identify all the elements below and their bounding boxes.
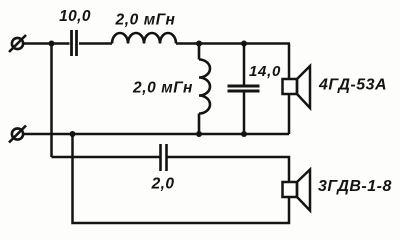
wire C3 branch left [52, 156, 160, 159]
wire from top terminal to C1 [24, 42, 70, 45]
capacitor C1 10,0 [72, 30, 77, 56]
speaker BA1 4GD-53A [283, 66, 311, 108]
wire C1 to L1 [79, 42, 112, 45]
node junction top-left [49, 41, 55, 47]
svg-text:2,0: 2,0 [151, 176, 175, 193]
node C2 top [241, 41, 247, 47]
capacitor C3 2,0 [161, 144, 167, 171]
wire bottom rail [24, 133, 290, 136]
node L2 top [196, 41, 202, 47]
capacitor C2 14,0 (shunt) [228, 44, 260, 135]
node bottom rail left [70, 131, 76, 137]
wire C3 to speaker BA2 [168, 157, 290, 182]
inductor L1 2,0 mH (series) [112, 33, 176, 44]
wire from top node down to C3 branch [50, 44, 53, 158]
input terminal bottom [9, 126, 26, 143]
inductor L2 2,0 mH (shunt) [199, 44, 210, 135]
wire L1 to speaker branch [176, 42, 290, 45]
svg-text:10,0: 10,0 [59, 8, 91, 25]
speaker BA2 3GDV-1-8 [283, 170, 311, 211]
node L2 bottom [196, 131, 202, 137]
input terminal top [9, 35, 26, 52]
svg-text:2,0 мГн: 2,0 мГн [132, 80, 193, 97]
node C2 bottom [241, 131, 247, 137]
wire bottom return left [73, 134, 290, 223]
wire down to speaker BA1 [288, 44, 291, 80]
svg-text:4ГД-53А: 4ГД-53А [318, 77, 387, 94]
svg-text:3ГДВ-1-8: 3ГДВ-1-8 [318, 178, 392, 195]
wire speaker BA1 to bottom rail [288, 94, 291, 134]
svg-text:2,0 мГн: 2,0 мГн [114, 12, 175, 29]
svg-text:14,0: 14,0 [249, 63, 281, 80]
